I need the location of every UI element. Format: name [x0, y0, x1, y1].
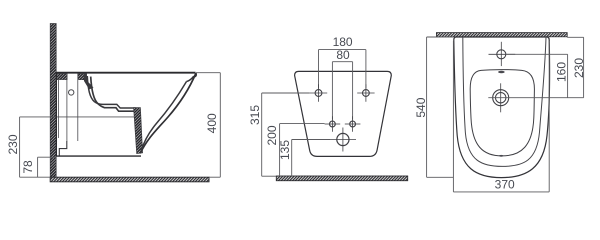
dimension 180: [319, 50, 366, 89]
drain hole: [330, 128, 356, 152]
bidet rear outline (trapezoid): [295, 71, 392, 156]
front face inner edge: [141, 82, 186, 151]
dimension 135: [292, 140, 330, 177]
bidet plan rim inner line: [463, 37, 546, 166]
tap hole right wall: [77, 74, 79, 142]
dimension 315: [262, 93, 310, 176]
inlet step outline: [59, 141, 67, 156]
svg-text:315: 315: [248, 105, 262, 125]
drain hole: [493, 83, 509, 112]
svg-text:230: 230: [6, 134, 20, 154]
dimension 540: [427, 37, 454, 177]
fixing hole right: [357, 84, 374, 101]
wall (hatched): [436, 33, 567, 37]
overflow tick top: [498, 71, 505, 73]
front outer face: [140, 73, 196, 153]
svg-text:230: 230: [572, 58, 586, 78]
dimension 80: [332, 62, 352, 120]
tap hole: [489, 42, 516, 66]
bidet side profile: top deck line: [56, 72, 195, 74]
floor (hatched): [276, 176, 407, 181]
fixing hole circle: [69, 90, 74, 95]
trap wall band: [134, 108, 143, 154]
svg-text:80: 80: [336, 48, 350, 62]
wall (hatched): [50, 24, 56, 178]
bowl rear wall (thick): [87, 76, 135, 108]
bidet plan outline (outer): [454, 37, 550, 178]
bottom line: [56, 155, 141, 157]
rim front nose: [187, 73, 197, 82]
svg-text:370: 370: [495, 178, 515, 192]
svg-text:540: 540: [414, 97, 428, 117]
svg-text:135: 135: [278, 140, 292, 160]
dimension 370: [453, 41, 549, 192]
drain crosshair + extension to right dims: [488, 97, 583, 99]
svg-text:78: 78: [21, 160, 35, 174]
rear face line: [55, 73, 57, 157]
mounting hole inner-left: [325, 116, 341, 132]
svg-text:160: 160: [555, 62, 569, 82]
dimension 78: [38, 157, 57, 177]
wire: 230 drain extension line: [20, 116, 137, 118]
deck corner block: [84, 74, 94, 90]
dimension 400: [196, 73, 220, 178]
dimension 200: [280, 124, 325, 177]
dimension 230 (plan): [567, 37, 583, 97]
bowl opening: [470, 70, 534, 156]
deck cross-section hatch (left of tap hole): [56, 74, 67, 80]
bowl surface line: [91, 77, 136, 112]
svg-text:400: 400: [205, 113, 219, 133]
dimension 230 (side): [20, 117, 51, 177]
floor (hatched): [50, 177, 209, 182]
dimension 160: [506, 54, 568, 97]
rear wall inner surface: [57, 80, 59, 138]
tap hole left wall: [66, 74, 68, 142]
deck cross-section hatch (right of tap hole): [78, 74, 87, 80]
fixing hole left: [310, 84, 327, 101]
tick bottom: [499, 155, 503, 157]
svg-text:200: 200: [265, 125, 279, 145]
mounting hole inner-right: [345, 116, 361, 132]
